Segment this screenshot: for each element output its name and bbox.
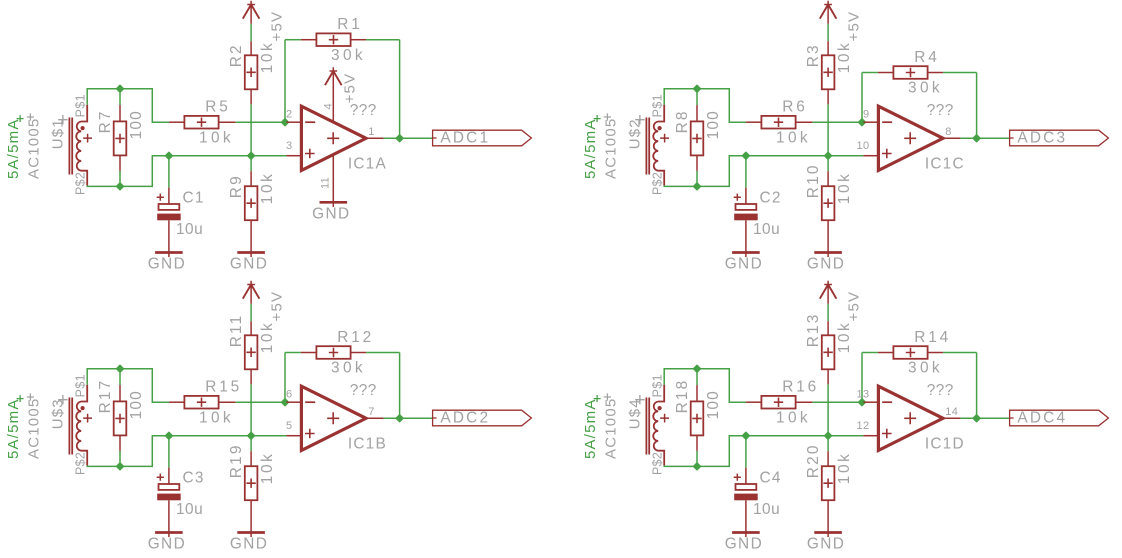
svg-text:IC1A: IC1A <box>348 156 387 173</box>
resistor R7 leads <box>119 89 121 187</box>
resistor R6 10k <box>761 99 811 147</box>
svg-text:9: 9 <box>863 108 869 120</box>
resistor R18 100 <box>674 379 722 436</box>
wire net from transformer P$1 to R5 row <box>87 369 169 403</box>
wire capacitor stub <box>168 436 170 468</box>
wire feedback top left segment <box>862 72 878 74</box>
junction inverting input node <box>282 399 289 406</box>
svg-text:???: ??? <box>927 382 954 399</box>
svg-text:???: ??? <box>927 102 954 119</box>
junction divider node <box>825 152 832 159</box>
wire net from transformer P$2 to op-amp non-inverting row <box>87 436 286 467</box>
wire +5V to divider resistor <box>827 24 829 42</box>
svg-text:R19: R19 <box>228 443 245 478</box>
pin name P$2 <box>74 452 88 475</box>
wire op-amp output to ADC flag <box>383 417 432 419</box>
wire net from transformer P$2 to op-amp non-inverting row <box>664 436 863 467</box>
resistor R11 leads <box>250 321 252 384</box>
net flag ADC1 <box>433 129 532 146</box>
label value 5A/5mA <box>582 395 601 459</box>
op-amp pin 11 to ground <box>332 155 334 207</box>
wire R9 stub <box>250 156 252 172</box>
svg-text:ADC4: ADC4 <box>1017 409 1067 426</box>
label +5V <box>845 291 862 322</box>
resistor R17 100 <box>97 379 145 436</box>
pin name P$2 <box>651 172 665 195</box>
label U$4 <box>626 395 644 429</box>
wire feedback right vertical <box>399 353 401 419</box>
label +5V <box>268 291 285 322</box>
svg-text:10k: 10k <box>259 41 276 74</box>
svg-text:AC1005: AC1005 <box>603 398 620 459</box>
label U$2 <box>626 115 644 149</box>
wire feedback top right segment <box>943 72 977 74</box>
svg-text:P$1: P$1 <box>74 94 88 117</box>
supply +5V arrow <box>243 281 260 304</box>
svg-text:ADC3: ADC3 <box>1017 129 1067 146</box>
svg-text:P$1: P$1 <box>74 374 88 397</box>
svg-text:R3: R3 <box>805 43 822 67</box>
junction output node <box>396 135 403 142</box>
svg-text:5: 5 <box>286 420 292 432</box>
wire R5 output to inverting input <box>235 401 286 403</box>
wire feedback top right segment <box>366 352 400 354</box>
svg-text:R8: R8 <box>674 109 691 133</box>
transformer U$3 <box>69 385 92 466</box>
svg-text:+5V: +5V <box>845 11 862 42</box>
pin name P$2 <box>74 172 88 195</box>
pin number 6 <box>286 388 292 400</box>
wire R5 output to inverting input <box>235 121 286 123</box>
pin number 13 <box>857 388 870 400</box>
svg-text:10u: 10u <box>753 501 780 518</box>
label value 5A/5mA <box>5 115 24 179</box>
pin number 3 <box>286 140 292 152</box>
svg-text:IC1C: IC1C <box>925 156 965 173</box>
label IC1A <box>348 156 387 173</box>
wire R9 stub <box>827 436 829 452</box>
supply +5V arrow <box>243 1 260 24</box>
svg-text:10k: 10k <box>836 321 853 354</box>
resistor R10 10k <box>805 163 853 220</box>
junction inverting input node <box>859 399 866 406</box>
junction capacitor node <box>742 432 749 439</box>
junction R7 top <box>117 85 124 92</box>
wire net from transformer P$1 to R5 row <box>664 369 746 403</box>
junction R7 bottom <box>117 463 124 470</box>
svg-text:IC1B: IC1B <box>348 436 387 453</box>
svg-text:10u: 10u <box>176 221 203 238</box>
svg-text:3: 3 <box>286 140 292 152</box>
svg-text:4: 4 <box>323 103 335 109</box>
resistor R18 leads <box>696 369 698 467</box>
svg-text:R18: R18 <box>674 379 691 414</box>
svg-text:GND: GND <box>807 536 845 553</box>
svg-text:R15: R15 <box>205 379 242 396</box>
junction divider node <box>825 432 832 439</box>
wire R5 output to inverting input <box>812 401 863 403</box>
label AC1005 <box>26 113 43 179</box>
pin number 10 <box>857 140 870 152</box>
junction capacitor node <box>742 152 749 159</box>
pin name P$1 <box>651 374 665 397</box>
svg-text:P$2: P$2 <box>651 452 665 475</box>
resistor R1 30k <box>316 16 366 64</box>
pin number 7 <box>368 406 374 418</box>
svg-text:30k: 30k <box>331 47 366 64</box>
wire R9 stub <box>827 156 829 172</box>
svg-text:GND: GND <box>230 256 268 273</box>
resistor R15 10k <box>184 379 242 427</box>
svg-text:GND: GND <box>807 256 845 273</box>
svg-text:2: 2 <box>286 108 292 120</box>
svg-text:R1: R1 <box>337 16 362 33</box>
svg-text:10k: 10k <box>836 452 853 485</box>
svg-text:10k: 10k <box>836 172 853 205</box>
svg-text:+5V: +5V <box>342 73 359 104</box>
svg-text:ADC2: ADC2 <box>440 409 490 426</box>
label IC1C <box>925 156 965 173</box>
wire op-amp output to ADC flag <box>960 417 1009 419</box>
resistor R5 10k <box>184 99 234 147</box>
junction divider node <box>248 432 255 439</box>
wire R divider middle vertical <box>250 104 252 155</box>
svg-text:GND: GND <box>312 206 350 223</box>
svg-text:10k: 10k <box>776 129 811 146</box>
svg-text:10k: 10k <box>259 452 276 485</box>
wire +5V to divider resistor <box>250 304 252 322</box>
ground below R10 <box>807 253 845 273</box>
label ??? <box>927 102 954 119</box>
op-amp IC1A <box>286 106 383 170</box>
junction R7 bottom <box>694 463 701 470</box>
wire op-amp output to ADC flag <box>960 137 1009 139</box>
svg-text:10u: 10u <box>753 221 780 238</box>
svg-text:6: 6 <box>286 388 292 400</box>
wire feedback left vertical <box>284 40 286 123</box>
wire feedback top right segment <box>366 39 400 41</box>
resistor R6 leads <box>746 121 813 123</box>
resistor R2 10k <box>228 41 276 90</box>
svg-text:R17: R17 <box>97 379 114 414</box>
ground at op-amp pin 11 <box>312 202 350 222</box>
svg-text:U$2: U$2 <box>626 118 643 149</box>
pin number 8 <box>945 126 951 138</box>
resistor R4 leads <box>878 72 943 74</box>
resistor R10 leads <box>827 171 829 257</box>
svg-text:AC1005: AC1005 <box>603 118 620 179</box>
resistor R16 leads <box>746 401 813 403</box>
wire capacitor stub <box>745 156 747 188</box>
resistor R3 10k <box>805 41 853 90</box>
svg-text:P$2: P$2 <box>74 172 88 195</box>
svg-text:P$1: P$1 <box>651 374 665 397</box>
svg-text:14: 14 <box>945 406 958 418</box>
resistor R2 leads <box>250 41 252 104</box>
svg-text:R11: R11 <box>228 314 245 348</box>
svg-text:R13: R13 <box>805 312 822 347</box>
svg-text:AC1005: AC1005 <box>26 398 43 459</box>
resistor R11 10k <box>228 314 276 370</box>
svg-text:AC1005: AC1005 <box>26 118 43 179</box>
resistor R17 leads <box>119 369 121 467</box>
label +5V <box>268 11 285 42</box>
wire capacitor stub <box>745 436 747 468</box>
svg-text:100: 100 <box>128 390 145 419</box>
net flag ADC4 <box>1010 409 1109 426</box>
svg-text:C3: C3 <box>183 469 205 486</box>
svg-text:R16: R16 <box>782 379 819 396</box>
resistor R9 leads <box>250 171 252 257</box>
pin name P$1 <box>651 94 665 117</box>
svg-text:IC1D: IC1D <box>925 436 965 453</box>
capacitor C4 10u <box>734 468 782 537</box>
ground below R19 <box>230 533 268 553</box>
svg-text:R7: R7 <box>97 109 114 133</box>
net flag ADC3 <box>1010 129 1109 146</box>
svg-text:R14: R14 <box>914 329 951 346</box>
svg-text:5A/5mA: 5A/5mA <box>582 118 599 179</box>
pin number 9 <box>863 108 869 120</box>
svg-text:10k: 10k <box>199 409 234 426</box>
svg-text:ADC1: ADC1 <box>440 129 490 146</box>
label ??? <box>350 382 377 399</box>
svg-text:C1: C1 <box>183 189 205 206</box>
svg-text:GND: GND <box>148 536 186 553</box>
svg-text:GND: GND <box>725 256 763 273</box>
pin number 14 <box>945 406 958 418</box>
ground below C1 <box>148 253 186 273</box>
junction divider node <box>248 152 255 159</box>
svg-text:R9: R9 <box>228 174 245 198</box>
label U$1 <box>49 115 67 149</box>
junction R7 bottom <box>117 183 124 190</box>
svg-text:5A/5mA: 5A/5mA <box>5 118 22 179</box>
pin number 1 <box>368 126 374 138</box>
wire feedback top right segment <box>943 352 977 354</box>
wire net from transformer P$1 to R5 row <box>664 89 746 123</box>
pin name P$1 <box>74 374 88 397</box>
wire R divider middle vertical <box>827 104 829 155</box>
resistor R16 10k <box>761 379 819 427</box>
svg-text:11: 11 <box>320 177 332 189</box>
resistor R8 leads <box>696 89 698 187</box>
wire feedback right vertical <box>399 40 401 139</box>
svg-text:U$4: U$4 <box>626 398 643 429</box>
resistor R1 leads <box>301 39 366 41</box>
resistor R14 30k <box>893 329 951 377</box>
svg-text:30k: 30k <box>331 360 366 377</box>
svg-text:100: 100 <box>705 110 722 139</box>
label value 5A/5mA <box>5 395 24 459</box>
wire feedback right vertical <box>976 353 978 419</box>
resistor R14 leads <box>878 352 943 354</box>
svg-text:R20: R20 <box>805 443 822 478</box>
wire +5V to divider resistor <box>250 24 252 42</box>
svg-text:R2: R2 <box>228 43 245 67</box>
pin name P$1 <box>74 94 88 117</box>
resistor R7 100 <box>97 109 145 155</box>
transformer U$2 <box>646 105 669 185</box>
svg-text:10k: 10k <box>259 172 276 205</box>
wire net from transformer P$2 to op-amp non-inverting row <box>87 156 286 187</box>
ground below C4 <box>725 533 763 553</box>
label IC1D <box>925 436 965 453</box>
pin number 4 <box>323 103 335 109</box>
svg-text:5A/5mA: 5A/5mA <box>5 398 22 459</box>
svg-text:P$2: P$2 <box>651 172 665 195</box>
wire R divider middle vertical <box>827 384 829 435</box>
svg-text:7: 7 <box>368 406 374 418</box>
op-amp IC1D <box>863 386 960 450</box>
wire R divider middle vertical <box>250 384 252 435</box>
wire feedback top left segment <box>862 352 878 354</box>
junction output node <box>396 415 403 422</box>
pin number 11 <box>320 177 332 189</box>
svg-text:R6: R6 <box>782 99 807 116</box>
svg-text:???: ??? <box>350 382 377 399</box>
capacitor C3 10u <box>157 468 205 537</box>
resistor R9 10k <box>228 172 276 221</box>
label AC1005 <box>26 393 43 459</box>
supply +5V at op-amp pin 4 <box>325 67 342 122</box>
svg-text:R10: R10 <box>805 163 822 198</box>
junction output node <box>973 415 980 422</box>
wire op-amp output to ADC flag <box>383 137 432 139</box>
junction R7 bottom <box>694 183 701 190</box>
svg-text:10k: 10k <box>259 321 276 354</box>
resistor R15 leads <box>169 401 236 403</box>
svg-text:R4: R4 <box>914 49 939 66</box>
svg-text:+5V: +5V <box>845 291 862 322</box>
svg-text:1: 1 <box>368 126 374 138</box>
resistor R4 30k <box>893 49 943 97</box>
wire net from transformer P$1 to R5 row <box>87 89 169 123</box>
svg-text:+5V: +5V <box>268 11 285 42</box>
junction capacitor node <box>165 152 172 159</box>
resistor R12 30k <box>316 329 374 377</box>
label ??? <box>927 382 954 399</box>
net flag ADC2 <box>433 409 532 426</box>
svg-text:R5: R5 <box>205 99 230 116</box>
label ??? <box>350 102 377 119</box>
svg-text:P$1: P$1 <box>651 94 665 117</box>
svg-text:30k: 30k <box>908 360 943 377</box>
svg-text:GND: GND <box>725 536 763 553</box>
label value 5A/5mA <box>582 115 601 179</box>
svg-text:10k: 10k <box>776 409 811 426</box>
svg-text:U$1: U$1 <box>49 118 66 149</box>
svg-text:GND: GND <box>230 536 268 553</box>
wire feedback left vertical <box>861 73 863 123</box>
ground below C2 <box>725 253 763 273</box>
svg-text:8: 8 <box>945 126 951 138</box>
wire R9 stub <box>250 436 252 452</box>
junction inverting input node <box>859 119 866 126</box>
wire capacitor stub <box>168 156 170 188</box>
svg-text:12: 12 <box>857 420 870 432</box>
pin number 12 <box>857 420 870 432</box>
wire feedback right vertical <box>976 73 978 139</box>
resistor R5 leads <box>169 121 236 123</box>
wire net from transformer P$2 to op-amp non-inverting row <box>664 156 863 187</box>
svg-text:30k: 30k <box>908 80 943 97</box>
resistor R19 10k <box>228 443 276 500</box>
pin name P$2 <box>651 452 665 475</box>
label AC1005 <box>603 393 620 459</box>
supply +5V arrow <box>820 281 837 304</box>
junction inverting input node <box>282 119 289 126</box>
resistor R13 10k <box>805 312 853 369</box>
svg-text:10k: 10k <box>199 129 234 146</box>
svg-text:10: 10 <box>857 140 870 152</box>
op-amp IC1B <box>286 386 383 450</box>
supply +5V arrow <box>820 1 837 24</box>
svg-text:13: 13 <box>857 388 870 400</box>
svg-text:GND: GND <box>148 256 186 273</box>
capacitor C1 10u <box>157 188 205 257</box>
wire feedback top left segment <box>285 39 301 41</box>
svg-text:+5V: +5V <box>268 291 285 322</box>
wire feedback top left segment <box>285 352 301 354</box>
resistor R12 leads <box>301 352 366 354</box>
pin number 2 <box>286 108 292 120</box>
transformer U$1 <box>69 105 92 185</box>
label +5V pin4 <box>342 73 359 104</box>
resistor R20 leads <box>827 451 829 537</box>
resistor R19 leads <box>250 451 252 537</box>
junction capacitor node <box>165 432 172 439</box>
svg-text:P$2: P$2 <box>74 452 88 475</box>
svg-text:100: 100 <box>705 390 722 419</box>
pin number 5 <box>286 420 292 432</box>
wire +5V to divider resistor <box>827 304 829 322</box>
ground below C3 <box>148 533 186 553</box>
svg-text:R12: R12 <box>337 329 374 346</box>
junction R7 top <box>694 85 701 92</box>
ground below R20 <box>807 533 845 553</box>
transformer U$4 <box>646 385 669 466</box>
wire R5 output to inverting input <box>812 121 863 123</box>
op-amp IC1C <box>863 106 960 170</box>
label IC1B <box>348 436 387 453</box>
label +5V <box>845 11 862 42</box>
svg-text:100: 100 <box>128 110 145 139</box>
junction output node <box>973 135 980 142</box>
svg-text:5A/5mA: 5A/5mA <box>582 398 599 459</box>
junction R7 top <box>117 365 124 372</box>
label U$3 <box>49 395 67 429</box>
resistor R3 leads <box>827 41 829 104</box>
svg-text:10u: 10u <box>176 501 203 518</box>
svg-text:10k: 10k <box>836 41 853 74</box>
svg-text:U$3: U$3 <box>49 398 66 429</box>
resistor R8 100 <box>674 109 722 155</box>
junction R7 top <box>694 365 701 372</box>
wire feedback left vertical <box>284 353 286 403</box>
svg-text:C4: C4 <box>760 469 782 486</box>
wire feedback left vertical <box>861 353 863 403</box>
label AC1005 <box>603 113 620 179</box>
svg-text:C2: C2 <box>760 189 782 206</box>
resistor R20 10k <box>805 443 853 500</box>
capacitor C2 10u <box>734 188 782 257</box>
resistor R13 leads <box>827 321 829 384</box>
ground below R9 <box>230 253 268 273</box>
